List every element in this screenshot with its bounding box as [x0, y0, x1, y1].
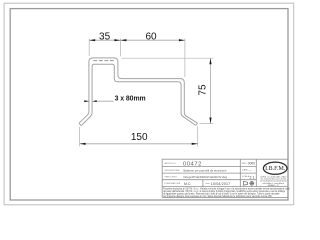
ext line left (x=89.2) — [88, 39, 90, 57]
svg-text:35: 35 — [99, 31, 111, 42]
left flare tip cap — [79, 123, 81, 126]
dim 150 line — [80, 143, 198, 145]
svg-text:1:1: 1:1 — [249, 175, 254, 179]
outer sheet frame — [4, 3, 294, 205]
arrow 60 right — [179, 39, 185, 41]
dim 75 line — [210, 58, 212, 123]
svg-text:10/04/2017: 10/04/2017 — [211, 182, 231, 186]
svg-text:---: --- — [249, 168, 252, 172]
svg-text:Battente per pannelli da recin: Battente per pannelli da recinzione — [184, 168, 228, 172]
right flare tip cap — [196, 123, 198, 125]
arrow 150 left — [80, 143, 86, 145]
arrow 75 bottom — [209, 118, 211, 124]
hidden hem edge (dashed) — [93, 60, 113, 62]
arrow thickness left — [84, 100, 89, 102]
arrow 35 left — [89, 39, 95, 41]
svg-text:M.C.: M.C. — [184, 182, 191, 186]
svg-text:nel presente disegno sono espr: nel presente disegno sono espresse in mm… — [163, 195, 272, 198]
fine print — [163, 188, 290, 198]
title block borders — [162, 159, 288, 197]
svg-text:0000: 0000 — [248, 161, 255, 165]
leader stub left — [84, 100, 89, 102]
svg-text:Disegni\ProE\DWG\ProE\00472.dw: Disegni\ProE\DWG\ProE\00472.dwg — [184, 175, 228, 179]
ext line mid (x=120.4) — [119, 39, 121, 57]
ext line bl (x=79.6) — [79, 127, 81, 146]
profile inner contour — [81, 64, 196, 125]
svg-text:75: 75 — [197, 84, 208, 96]
arrow thickness right — [92, 100, 97, 102]
svg-text:00472: 00472 — [183, 161, 202, 167]
ext line top (y=58.2) — [122, 57, 214, 59]
ext line right (x=184.9) — [184, 39, 186, 77]
svg-text:MILANO - IT: MILANO - IT — [268, 184, 279, 187]
ext line br (x=197.7) — [197, 126, 199, 146]
arrow 75 top — [209, 58, 211, 64]
inner sheet frame — [10, 9, 288, 200]
arrow 60 left — [120, 39, 126, 41]
leader 3x80 line — [95, 100, 114, 102]
svg-text:3 x 80mm: 3 x 80mm — [115, 96, 146, 103]
svg-text:I.B.F.M.: I.B.F.M. — [265, 166, 286, 172]
svg-text:REV.: REV. — [242, 163, 247, 165]
projection symbol — [244, 181, 255, 185]
profile outer contour — [79, 58, 198, 123]
dim 35/60 line — [89, 39, 185, 41]
IBFM logo ellipse — [263, 162, 287, 174]
svg-text:ARTICOLO: ARTICOLO — [165, 162, 176, 165]
svg-text:DATA: DATA — [242, 168, 248, 171]
svg-text:PERCORSO: PERCORSO — [165, 177, 178, 179]
ext line bottom (y=123.5) — [199, 123, 213, 125]
logo address lines — [260, 175, 287, 187]
svg-text:150: 150 — [131, 132, 148, 143]
svg-text:60: 60 — [145, 31, 157, 42]
svg-text:DISEGNATORE: DISEGNATORE — [165, 182, 181, 185]
arrow 150 right — [192, 143, 198, 145]
svg-text:DESCRIZIONE: DESCRIZIONE — [165, 170, 180, 172]
arrow 35 right — [114, 39, 120, 41]
